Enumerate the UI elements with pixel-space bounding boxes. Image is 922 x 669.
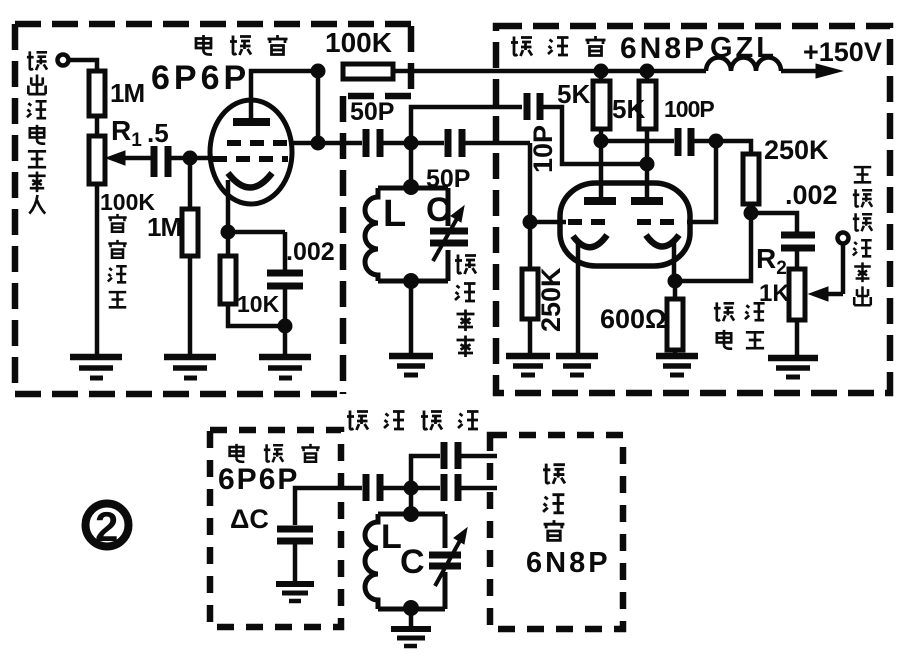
- inductor L tank1 left bumps: [365, 188, 378, 281]
- wire node to 1M lower: [188, 158, 193, 209]
- V1 anode bar: [233, 118, 270, 126]
- wire cathode node right: [228, 230, 285, 235]
- wire 1M lower to ground: [188, 256, 193, 354]
- wire 1M to pot: [95, 116, 100, 136]
- V2 left anode bar: [584, 197, 616, 205]
- wire node to lower cap: [411, 486, 440, 491]
- capacitor 100P: [678, 128, 691, 156]
- svg-text:C: C: [400, 543, 425, 581]
- node right grid / feedback: [709, 134, 724, 149]
- ground (cathode RC): [259, 357, 311, 378]
- label 电抗管 (reactance tube): [196, 35, 288, 55]
- wire 5K second to right anode: [645, 129, 650, 201]
- inductor GZL choke: [706, 58, 781, 72]
- wire .002 bottom: [283, 289, 288, 326]
- wire tank bottom to ground: [409, 281, 414, 355]
- wire node down to screen row: [316, 71, 321, 143]
- wire node to control grid: [190, 156, 213, 161]
- label 锯齿波电压输入 (sawtooth voltage input): [27, 51, 47, 213]
- svg-text:5K: 5K: [612, 94, 645, 124]
- output terminal J2: [838, 233, 849, 244]
- wiper arrow into R1: [106, 151, 151, 165]
- svg-text:6N8P: 6N8P: [620, 32, 707, 65]
- inductor L tank2 bumps: [365, 514, 378, 609]
- wire node up to upper cap: [411, 456, 440, 488]
- capacitor 10P: [527, 93, 540, 120]
- svg-text:1M: 1M: [147, 212, 181, 242]
- label 振荡管 (oscillator tube): [511, 36, 606, 56]
- node tank bottom: [403, 273, 419, 289]
- capacitor delta-C plates: [277, 529, 313, 541]
- V2 right cathode arc: [646, 235, 679, 247]
- label 扫描振荡输出 (sweep oscillation output): [853, 167, 872, 305]
- wire upper cap to 6N8P box: [461, 454, 497, 459]
- ground (tank2): [391, 629, 431, 646]
- capacitor 50P first: [366, 129, 380, 157]
- node tank2 top: [403, 506, 419, 522]
- ground (1M lower): [164, 357, 216, 378]
- svg-text:5K: 5K: [557, 79, 590, 109]
- node right anode/10P: [640, 157, 655, 172]
- tank1 frame: [378, 188, 448, 281]
- V2 right anode bar: [631, 197, 663, 205]
- circled figure number 2: [86, 503, 129, 550]
- wire 600 ohm to ground: [673, 350, 678, 356]
- svg-text:100K: 100K: [325, 27, 392, 58]
- V2 left grid dashes: [568, 219, 611, 225]
- node left anode: [594, 134, 609, 149]
- wire lower cap to 6N8P box: [461, 486, 497, 491]
- svg-text:C: C: [426, 191, 451, 229]
- capacitor upper right: [444, 442, 458, 469]
- label 振荡频率 (oscillation frequency): [455, 255, 476, 358]
- svg-text:+150V: +150V: [803, 37, 882, 67]
- resistor 250K left grid leak: [522, 269, 538, 319]
- wire delta-C to ground: [293, 544, 298, 582]
- wire 10K bottom: [228, 304, 285, 326]
- svg-text:.002: .002: [286, 238, 335, 266]
- ground (pot): [70, 357, 122, 378]
- ground (R2): [768, 358, 818, 377]
- tank2 frame: [378, 514, 445, 609]
- V1 cathode arc: [228, 173, 272, 188]
- node cathode: [221, 225, 236, 240]
- wire left cathode to ground: [576, 241, 581, 355]
- node tank top: [403, 179, 419, 195]
- svg-text:.002: .002: [785, 180, 838, 210]
- wire node to 250K top: [716, 141, 751, 154]
- wire node to ground: [283, 326, 288, 354]
- wire 5K first to left anode: [599, 129, 604, 201]
- capacitor .002 wire top: [283, 232, 288, 270]
- node screen junction: [311, 136, 326, 151]
- wire cathode node to 250K bottom: [675, 213, 751, 281]
- capacitor .002 output: [781, 235, 815, 248]
- dashed enclosure box: oscillator stage: [496, 26, 890, 393]
- capacitor coupling (bottom left): [366, 474, 380, 501]
- wire delta-C cap to coupling: [295, 488, 362, 525]
- potentiometer R1 100K: [89, 136, 105, 184]
- wire 250K bottom: [749, 204, 754, 213]
- variable capacitor tank2 plates: [429, 555, 461, 566]
- svg-text:.5: .5: [147, 118, 169, 148]
- wire cap to grid node: [171, 156, 190, 161]
- wire junction to 50P second: [411, 141, 444, 146]
- V2 right grid dashes: [637, 219, 680, 225]
- capacitor .5: [154, 146, 168, 177]
- wire to output terminal: [841, 244, 846, 294]
- wire 10P to right plate node: [543, 107, 640, 164]
- wire choke to +150V arrow: [781, 64, 842, 78]
- wire node down to right grid: [687, 141, 716, 222]
- svg-text:2: 2: [95, 503, 118, 550]
- wire right cathode down: [672, 240, 677, 281]
- resistor 5K first: [593, 71, 610, 129]
- V2 left cathode arc: [573, 235, 607, 247]
- capacitor lower right: [444, 474, 458, 501]
- wire tank2 to ground: [409, 609, 414, 626]
- wire 100P to right grid node: [694, 139, 716, 144]
- wire .002 to R2: [795, 251, 800, 269]
- wire left grid column down: [528, 143, 533, 269]
- node grid junction: [183, 151, 198, 166]
- V1 screen grid dashes: [227, 140, 292, 146]
- label 振荡电平 (oscillation level): [714, 302, 765, 348]
- wire 250K to ground: [528, 319, 533, 355]
- tube V1 6P6P envelope: [210, 100, 292, 204]
- capacitor 50P second: [448, 129, 462, 157]
- resistor 1M upper: [89, 71, 105, 116]
- wire node to .002 cap: [751, 213, 797, 232]
- node 10K/.002: [278, 319, 293, 334]
- dashed enclosure box: oscillator tube (bottom): [490, 435, 623, 629]
- wire pot bottom to ground: [95, 184, 100, 354]
- wire left anode node to 100P: [601, 139, 674, 144]
- svg-text:250K: 250K: [536, 267, 566, 332]
- output wiper arrow into R2: [809, 287, 843, 301]
- dashed enclosure box: reactance tube (bottom): [210, 430, 341, 627]
- tube V2 6N8P envelope: [560, 183, 690, 266]
- wire junction down to tank top: [409, 143, 414, 187]
- variable capacitor tank2 arrow: [435, 528, 467, 586]
- ground (left grid leak): [506, 356, 550, 375]
- variable capacitor arrow: [433, 206, 464, 261]
- wire R2 to ground: [795, 320, 800, 357]
- wire junction up to 10P branch: [411, 107, 522, 143]
- ground (delta-C): [276, 584, 314, 601]
- node left grid: [523, 215, 538, 230]
- dashed enclosure box: reactance tube stage: [15, 24, 411, 394]
- wire cap to node: [383, 486, 411, 491]
- label 电抗管: [230, 444, 320, 462]
- svg-text:10K: 10K: [237, 291, 280, 317]
- variable capacitor C tank1 plates: [430, 231, 468, 243]
- resistor 600 ohm: [667, 281, 683, 350]
- svg-text:6P6P: 6P6P: [151, 59, 250, 97]
- svg-text:10P: 10P: [528, 125, 558, 173]
- V1 control grid dashes: [213, 156, 288, 162]
- svg-text:L: L: [383, 193, 406, 235]
- svg-text:6N8P: 6N8P: [526, 547, 611, 579]
- node coupling (bottom): [404, 481, 419, 496]
- wire cathode to 10K: [226, 232, 231, 256]
- potentiometer R2 1K: [789, 269, 805, 320]
- wire 50P to junction: [383, 141, 411, 146]
- svg-text:ΔC: ΔC: [230, 504, 269, 534]
- wire B+ rail to right box: [393, 69, 706, 74]
- node coupling junction: [404, 136, 419, 151]
- resistor 250K grid leak: [743, 154, 759, 204]
- svg-text:1M: 1M: [110, 78, 144, 108]
- node anode/100K: [311, 64, 326, 79]
- ground (left cathode): [556, 356, 598, 375]
- ground (tank1): [389, 356, 433, 375]
- capacitor .002 plates: [267, 273, 303, 286]
- svg-text:100P: 100P: [664, 96, 714, 122]
- wire cathode down: [226, 180, 231, 232]
- svg-text:50P: 50P: [350, 98, 394, 126]
- node 250K/.002/cathode: [744, 206, 759, 221]
- node rail/5K first: [594, 64, 609, 79]
- resistor 100K (plate load): [343, 64, 393, 79]
- label 振荡槽路 (oscillation tank circuit): [347, 411, 479, 431]
- input terminal J1: [58, 55, 69, 66]
- resistor 10K: [220, 256, 236, 304]
- node tank2 bottom: [403, 600, 419, 616]
- node rail/5K second: [640, 64, 655, 79]
- resistor 1M lower: [182, 209, 198, 256]
- svg-text:L: L: [381, 518, 402, 556]
- wire input to 1M top: [69, 60, 97, 71]
- ground (600 ohm): [656, 356, 698, 375]
- wire node down to tank2: [409, 488, 414, 514]
- resistor 5K second: [639, 71, 656, 129]
- wire anode up and right: [251, 71, 316, 122]
- label 振荡管 vertical: [543, 464, 565, 541]
- wire screen row to 50P: [290, 141, 362, 146]
- wire 50P second to 6N8P grid column: [465, 141, 530, 146]
- node right cathode: [668, 274, 683, 289]
- svg-text:6P6P: 6P6P: [218, 463, 299, 496]
- label 带宽调节 (bandwidth adjust): [108, 214, 127, 307]
- wire left grid to node: [530, 220, 566, 225]
- svg-text:250K: 250K: [764, 135, 829, 165]
- svg-text:600Ω: 600Ω: [600, 304, 667, 334]
